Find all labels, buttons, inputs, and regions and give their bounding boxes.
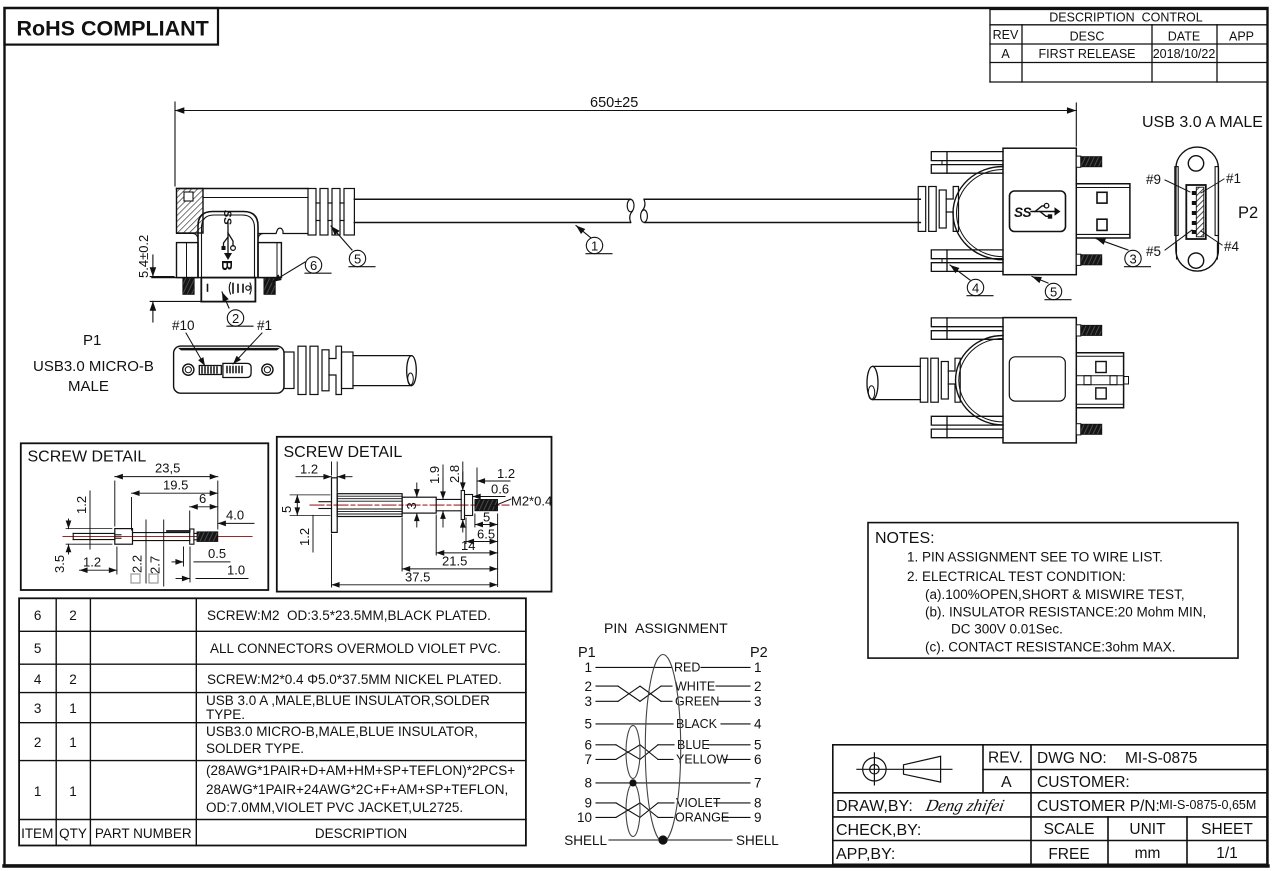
cable end: [867, 366, 878, 399]
svg-text:1: 1: [69, 735, 77, 750]
screw 1 body: [73, 529, 197, 545]
screw holes: [183, 364, 194, 375]
svg-text:BLACK: BLACK: [676, 717, 718, 731]
label circle 4: [950, 265, 993, 296]
RoHS COMPLIANT box: [5, 8, 219, 45]
svg-text:CHECK,BY:: CHECK,BY:: [836, 822, 921, 839]
base plate line: [152, 277, 281, 279]
USB A connector side view (top): [918, 148, 1130, 275]
micro-B strain relief ribs: [308, 189, 354, 236]
svg-text:1: 1: [754, 660, 762, 675]
USB-A metal plug: [1076, 353, 1123, 408]
svg-text:6: 6: [754, 752, 762, 767]
P2 face view capsule: [1175, 147, 1219, 271]
micro-B metal shell bottom: [201, 278, 255, 302]
shell pin marks: [208, 283, 252, 295]
svg-text:9: 9: [584, 796, 592, 811]
svg-text:APP: APP: [1229, 30, 1254, 44]
svg-text:P1: P1: [578, 645, 596, 661]
micro-B receptacle left part (#10 side): [199, 363, 251, 377]
plug middle seam: [1076, 375, 1123, 377]
wire GREEN right: [719, 700, 750, 702]
svg-text:4.0: 4.0: [226, 508, 244, 523]
svg-text:USB 3.0 A MALE: USB 3.0 A MALE: [1142, 114, 1263, 131]
screw 2 red centerline: [310, 504, 509, 506]
screw detail 2 dim text: [279, 462, 552, 585]
side slots: [1175, 167, 1178, 236]
USB A connector bottom view: [867, 318, 1129, 443]
svg-text:TYPE.: TYPE.: [206, 707, 245, 722]
top screw (A view): [1076, 156, 1102, 167]
strain relief ribs: [918, 187, 958, 232]
svg-text:SCREW:M2*0.4 Φ5.0*37.5MM NICKE: SCREW:M2*0.4 Φ5.0*37.5MM NICKEL PLATED.: [207, 672, 502, 687]
P1 strain relief ribs: [284, 346, 353, 394]
svg-text:RoHS COMPLIANT: RoHS COMPLIANT: [17, 17, 209, 41]
NOTES box: [868, 523, 1238, 659]
svg-text:RED: RED: [674, 661, 700, 675]
svg-text:DC 300V 0.01Sec.: DC 300V 0.01Sec.: [951, 622, 1063, 637]
cable break symbol: [627, 199, 647, 222]
page frame bottom thick line: [4, 864, 1268, 867]
svg-text:2: 2: [232, 311, 239, 326]
svg-text:CUSTOMER P/N:: CUSTOMER P/N:: [1037, 798, 1160, 815]
USB SS logo rotated on body: [221, 210, 235, 260]
wire WHITE right: [716, 685, 750, 687]
svg-text:2: 2: [69, 608, 77, 623]
svg-text:0.6: 0.6: [491, 482, 509, 497]
svg-text:#1: #1: [257, 318, 272, 333]
svg-text:6: 6: [34, 608, 42, 623]
svg-text:P2: P2: [1238, 204, 1258, 222]
P2 pin leader lines: [1165, 179, 1224, 250]
svg-text:0.5: 0.5: [208, 546, 226, 561]
label circle 5 (A side): [1032, 277, 1071, 300]
svg-text:8: 8: [584, 776, 592, 791]
svg-text:14: 14: [461, 538, 475, 553]
svg-text:8: 8: [754, 796, 762, 811]
wire YELLOW right: [724, 758, 750, 760]
shield ellipse pair 9/10: [626, 784, 640, 837]
svg-text:650±25: 650±25: [590, 95, 638, 111]
screw 1 threaded tip: [197, 532, 218, 542]
overmold dome: [956, 336, 1003, 425]
svg-text:USB 3.0 A ,MALE,BLUE INSULATOR: USB 3.0 A ,MALE,BLUE INSULATOR,SOLDER: [206, 693, 490, 708]
cable right segment: [645, 198, 921, 200]
SCREW DETAIL box 2: [277, 437, 552, 592]
svg-text:3: 3: [404, 502, 419, 509]
hatched shell block: [177, 189, 204, 234]
svg-text:DESCRIPTION: DESCRIPTION: [315, 826, 407, 841]
svg-text:9: 9: [754, 810, 762, 825]
svg-text:DWG NO:: DWG NO:: [1037, 750, 1107, 767]
svg-text:5: 5: [354, 252, 361, 267]
svg-text:QTY: QTY: [59, 826, 87, 841]
svg-text:SS: SS: [1014, 205, 1032, 220]
right black screw: [264, 278, 275, 295]
svg-text:SCREW DETAIL: SCREW DETAIL: [284, 444, 403, 461]
left flange: [177, 243, 199, 278]
screw 2 threaded tip: [475, 499, 498, 510]
BOM table text: [21, 608, 515, 841]
junction dot shell: [658, 835, 667, 844]
svg-text:SCREW:M2 OD:3.5*23.5MM,BLACK: SCREW:M2 OD:3.5*23.5MM,BLACK PLATED.: [207, 608, 491, 623]
svg-text:1: 1: [69, 784, 77, 799]
svg-text:PART NUMBER: PART NUMBER: [95, 826, 192, 841]
svg-text:6: 6: [310, 258, 317, 273]
neck bottom line to strain relief: [258, 228, 308, 233]
strain relief ribs: [920, 358, 960, 402]
micro-B receptacle right part (#1 side): [223, 363, 251, 377]
wire SHELL to SHELL: [609, 839, 732, 841]
label circle 3: [1096, 239, 1151, 267]
svg-text:REV.: REV.: [988, 750, 1023, 767]
top mounting prongs: [931, 152, 1003, 161]
svg-text:21.5: 21.5: [442, 554, 467, 569]
svg-text:#4: #4: [1224, 239, 1240, 254]
svg-text:1. PIN ASSIGNMENT SEE TO WIRE: 1. PIN ASSIGNMENT SEE TO WIRE LIST.: [907, 550, 1163, 565]
cable left segment: [354, 199, 920, 222]
pin numbers P2 column: [736, 660, 779, 848]
svg-text:3: 3: [34, 701, 42, 716]
svg-text:APP,BY:: APP,BY:: [836, 846, 895, 863]
svg-text:3: 3: [754, 694, 762, 709]
svg-text:28AWG*1PAIR+24AWG*2C+F+AM+SP+T: 28AWG*1PAIR+24AWG*2C+F+AM+SP+TEFLON,: [206, 782, 508, 797]
svg-text:(b). INSULATOR RESISTANCE:20 M: (b). INSULATOR RESISTANCE:20 Mohm MIN,: [925, 605, 1206, 620]
svg-text:mm: mm: [1135, 845, 1161, 862]
wires rows: [596, 667, 750, 840]
title block frame: [833, 745, 1267, 865]
svg-text:CUSTOMER:: CUSTOMER:: [1037, 774, 1130, 791]
square symbols: [131, 574, 140, 583]
twisted pair pins 6/7: [596, 744, 616, 746]
wire pin8 drain: [596, 782, 750, 784]
svg-text:1: 1: [591, 239, 598, 254]
screw detail 1 dimensions: [66, 477, 254, 586]
junction dot pin8: [629, 779, 636, 786]
overmold dome: [953, 167, 1003, 260]
plug holes: [1096, 362, 1106, 373]
svg-text:FIRST RELEASE: FIRST RELEASE: [1038, 47, 1135, 61]
svg-text:1/1: 1/1: [1216, 845, 1238, 862]
svg-text:SOLDER TYPE.: SOLDER TYPE.: [206, 741, 304, 756]
svg-text:UNIT: UNIT: [1129, 821, 1166, 838]
svg-text:USB3.0 MICRO-B: USB3.0 MICRO-B: [33, 358, 154, 375]
label circle 5 (micro side): [331, 226, 375, 267]
svg-text:1.2: 1.2: [497, 466, 515, 481]
svg-text:2018/10/22: 2018/10/22: [1153, 47, 1216, 61]
top screw (bottom view): [1076, 325, 1102, 336]
SS-USB logo in window: [1014, 203, 1061, 220]
svg-text:4: 4: [754, 717, 762, 732]
left black screw: [183, 278, 194, 295]
P1 caption: [33, 332, 154, 395]
svg-text:1: 1: [34, 784, 42, 799]
svg-text:#1: #1: [1226, 171, 1241, 186]
svg-text:4: 4: [972, 281, 979, 296]
screw 1 red centerline: [63, 536, 252, 538]
bottom screw (A view): [1076, 254, 1102, 265]
svg-text:1.2: 1.2: [297, 528, 312, 546]
svg-text:23,5: 23,5: [155, 461, 180, 476]
svg-text:5: 5: [34, 641, 42, 656]
wire P1-1 to RED to P2-1: [596, 666, 672, 668]
overmold body: [1003, 318, 1076, 443]
svg-text:DRAW,BY:: DRAW,BY:: [836, 798, 913, 815]
PIN ASSIGNMENT title: [578, 620, 768, 661]
svg-text:SHELL: SHELL: [564, 833, 607, 848]
title block text: [836, 750, 1256, 864]
svg-text:ORANGE: ORANGE: [675, 811, 729, 825]
svg-text:1.9: 1.9: [427, 466, 442, 484]
svg-text:5: 5: [754, 738, 762, 753]
svg-text:10: 10: [577, 810, 592, 825]
svg-text:YELLOW: YELLOW: [676, 753, 728, 767]
overmold body outline: [198, 212, 258, 278]
NOTES text: [875, 530, 1206, 655]
svg-text:1.2: 1.2: [74, 496, 89, 514]
BOM table frame: [19, 598, 526, 845]
svg-text:GREEN: GREEN: [675, 695, 719, 709]
svg-text:DESCRIPTION CONTROL: DESCRIPTION CONTROL: [1049, 11, 1203, 25]
svg-text:#10: #10: [172, 318, 195, 333]
svg-text:OD:7.0MM,VIOLET PVC JACKET,UL2: OD:7.0MM,VIOLET PVC JACKET,UL2725.: [206, 800, 463, 815]
svg-text:(28AWG*1PAIR+D+AM+HM+SP+TEFLON: (28AWG*1PAIR+D+AM+HM+SP+TEFLON)*2PCS+: [206, 763, 515, 778]
svg-text:19.5: 19.5: [163, 478, 188, 493]
svg-text:SHEET: SHEET: [1201, 821, 1253, 838]
svg-text:3: 3: [584, 694, 592, 709]
svg-text:7: 7: [584, 752, 592, 767]
svg-text:SCALE: SCALE: [1044, 821, 1095, 838]
twisted pair crossing pins 2/3: [596, 685, 618, 687]
P1 cable: [353, 356, 416, 386]
svg-text:MI-S-0875: MI-S-0875: [1125, 750, 1197, 767]
twisted pair pins 9/10: [596, 802, 616, 804]
label circle 2: [222, 292, 253, 326]
svg-text:WHITE: WHITE: [675, 680, 715, 694]
svg-text:MALE: MALE: [68, 378, 109, 395]
svg-text:4: 4: [34, 672, 42, 687]
svg-text:3.5: 3.5: [52, 555, 67, 573]
svg-text:6: 6: [584, 738, 592, 753]
svg-text:2.8: 2.8: [447, 465, 462, 483]
svg-text:BLUE: BLUE: [677, 738, 710, 752]
svg-text:1.2: 1.2: [300, 462, 318, 477]
bottom screw (bottom view): [1076, 424, 1102, 435]
plug holes: [1097, 192, 1107, 203]
wire VIOLET right: [714, 802, 750, 804]
svg-text:A: A: [1001, 774, 1012, 791]
svg-text:1: 1: [69, 701, 77, 716]
svg-text:A: A: [1001, 47, 1010, 61]
svg-text:5: 5: [1050, 285, 1057, 300]
svg-text:2.7: 2.7: [148, 556, 163, 574]
svg-text:P2: P2: [750, 645, 768, 661]
wire ORANGE right: [722, 816, 750, 818]
svg-text:#5: #5: [1146, 244, 1161, 259]
svg-text:2: 2: [584, 679, 592, 694]
svg-text:MI-S-0875-0,65M: MI-S-0875-0,65M: [1159, 798, 1256, 812]
svg-text:SHELL: SHELL: [736, 833, 779, 848]
description control table: [990, 10, 1267, 83]
svg-text:REV: REV: [993, 28, 1019, 42]
screw 2 body: [319, 478, 473, 533]
svg-text:3: 3: [1130, 252, 1137, 267]
svg-text:5: 5: [279, 506, 294, 513]
P1 front view body: [174, 346, 284, 393]
svg-text:ALL CONNECTORS OVERMOLD VIOLET: ALL CONNECTORS OVERMOLD VIOLET PVC.: [210, 641, 501, 656]
screw detail 2 dimensions: [290, 462, 511, 587]
top bar to strain relief: [177, 188, 309, 190]
svg-text:7: 7: [754, 776, 762, 791]
right shoulder: [258, 234, 276, 241]
svg-text:37.5: 37.5: [405, 570, 430, 585]
svg-text:1.0: 1.0: [227, 563, 245, 578]
bottom mounting prongs: [931, 250, 1003, 259]
svg-text:2.2: 2.2: [130, 555, 145, 573]
wire P1-5 BLACK P2-4: [596, 723, 673, 725]
svg-text:DESC: DESC: [1070, 30, 1105, 44]
svg-text:DATE: DATE: [1168, 30, 1200, 44]
plain window: [1009, 357, 1065, 401]
svg-text:#9: #9: [1146, 172, 1161, 187]
svg-text:M2*0.4: M2*0.4: [511, 494, 552, 509]
svg-text:1.2: 1.2: [83, 555, 101, 570]
svg-text:5: 5: [584, 717, 592, 732]
svg-text:(c). CONTACT RESISTANCE:3ohm M: (c). CONTACT RESISTANCE:3ohm MAX.: [925, 640, 1176, 655]
SCREW DETAIL box 1: [21, 443, 268, 590]
svg-text:1: 1: [584, 660, 592, 675]
third-angle projection symbol: [857, 753, 952, 785]
svg-text:ITEM: ITEM: [21, 826, 53, 841]
svg-text:2: 2: [69, 672, 77, 687]
dimension 650±25: [175, 102, 1076, 186]
svg-text:2: 2: [754, 679, 762, 694]
receptacle contacts: [1192, 191, 1197, 234]
receptacle: [1186, 185, 1206, 239]
top prongs: [931, 318, 1003, 327]
svg-text:SCREW DETAIL: SCREW DETAIL: [28, 449, 147, 466]
right flange: [258, 243, 281, 278]
P2 pin labels: [1146, 171, 1258, 259]
micro-B right-angle connector side view: [152, 189, 308, 278]
svg-text:P1: P1: [83, 332, 101, 349]
svg-text:B: B: [218, 260, 235, 271]
svg-text:2. ELECTRICAL TEST CONDITION:: 2. ELECTRICAL TEST CONDITION:: [907, 569, 1126, 584]
svg-text:(a).100%OPEN,SHORT & MISWIRE T: (a).100%OPEN,SHORT & MISWIRE TEST,: [925, 587, 1185, 602]
left shoulder: [177, 234, 199, 241]
shield ellipse pair 6/7: [626, 726, 640, 779]
wire color labels: [674, 661, 729, 825]
overmold body: [1003, 148, 1076, 275]
wire BLUE right: [708, 744, 750, 746]
svg-text:6: 6: [199, 491, 206, 506]
top slot dark: [178, 348, 280, 351]
label circle 6: [272, 257, 331, 282]
svg-text:NOTES:: NOTES:: [875, 530, 935, 547]
svg-text:SS: SS: [221, 210, 233, 225]
svg-text:USB3.0 MICRO-B,MALE,BLUE INSUL: USB3.0 MICRO-B,MALE,BLUE INSULATOR,: [206, 724, 478, 739]
pin numbers P1 column: [564, 660, 607, 848]
bottom prongs: [931, 416, 1003, 425]
USB-A metal plug: [1076, 184, 1130, 238]
svg-text:5.4±0.2: 5.4±0.2: [136, 235, 151, 278]
svg-text:6.5: 6.5: [477, 527, 495, 542]
logo window: [1010, 191, 1066, 232]
svg-text:PIN ASSIGNMENT: PIN ASSIGNMENT: [604, 620, 728, 636]
svg-text:FREE: FREE: [1048, 846, 1089, 863]
svg-text:2: 2: [34, 735, 42, 750]
screw detail 1 dim text: [52, 461, 245, 578]
svg-text:Deng zhifei: Deng zhifei: [923, 796, 1006, 815]
svg-text:5: 5: [483, 510, 490, 525]
cable jacket ellipse: [645, 655, 680, 842]
dimension 5.4±0.2: [150, 255, 200, 322]
label circle 1: [576, 226, 612, 254]
